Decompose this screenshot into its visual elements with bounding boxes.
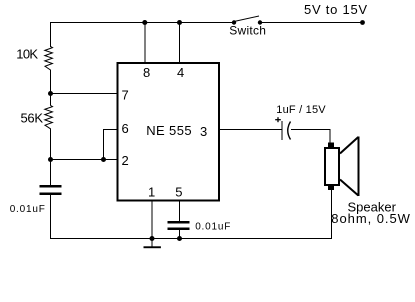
svg-text:6: 6 bbox=[122, 121, 129, 136]
svg-text:4: 4 bbox=[177, 65, 184, 80]
wire below R2 bbox=[50, 131, 52, 186]
svg-text:5V to 15V: 5V to 15V bbox=[304, 2, 368, 17]
switch S1 bbox=[232, 16, 262, 25]
wire bottom rail bbox=[50, 238, 332, 240]
wire C3 to speaker bbox=[291, 130, 330, 144]
svg-text:2: 2 bbox=[122, 153, 129, 168]
IC U1 NE 555 body bbox=[118, 63, 220, 201]
wire pin1 to ground rail bbox=[151, 200, 153, 239]
svg-text:56K: 56K bbox=[21, 111, 44, 126]
svg-text:8: 8 bbox=[143, 65, 150, 80]
svg-text:1: 1 bbox=[148, 184, 155, 199]
svg-text:0.01uF: 0.01uF bbox=[195, 221, 231, 232]
wire top rail left segment bbox=[50, 22, 234, 24]
capacitor C2 0.01uF right bbox=[168, 221, 190, 230]
svg-text:8ohm, 0.5W: 8ohm, 0.5W bbox=[331, 211, 411, 226]
node pin1 rail junction bbox=[150, 236, 155, 241]
svg-text:Switch: Switch bbox=[229, 24, 266, 38]
svg-text:3: 3 bbox=[200, 124, 207, 139]
wire pin6 stub bbox=[104, 130, 118, 161]
speaker LS1 bbox=[325, 137, 359, 197]
wire left rail top bbox=[50, 22, 52, 47]
wire speaker to rail bbox=[331, 189, 333, 239]
node junction pin6-pin2 bbox=[101, 157, 106, 162]
capacitor C1 0.01uF left bbox=[40, 185, 62, 195]
svg-text:0.01uF: 0.01uF bbox=[10, 204, 46, 215]
wire C2 to rail bbox=[179, 230, 181, 239]
wire pin7 bbox=[51, 93, 118, 95]
resistor R1 10K bbox=[45, 47, 53, 72]
node junction R2-pin2 bbox=[48, 157, 53, 162]
svg-text:5: 5 bbox=[175, 184, 182, 199]
node junction R1-R2 bbox=[48, 91, 53, 96]
wire pin3 bbox=[219, 129, 282, 131]
resistor R2 56K bbox=[45, 105, 53, 130]
capacitor C3 1uF polarized bbox=[275, 117, 290, 140]
wire C1 to bottom rail bbox=[50, 195, 52, 239]
wire top rail right segment bbox=[260, 22, 363, 24]
svg-text:10K: 10K bbox=[16, 47, 38, 62]
wire pin5 to C2 bbox=[179, 200, 181, 222]
node pin5 rail junction bbox=[177, 236, 182, 241]
node supply terminal bbox=[360, 20, 365, 25]
pin 8 bbox=[142, 20, 150, 80]
wire pin2 bbox=[51, 159, 118, 161]
pin 4 bbox=[177, 20, 184, 80]
svg-text:1uF / 15V: 1uF / 15V bbox=[276, 104, 326, 116]
svg-text:7: 7 bbox=[122, 88, 129, 103]
ground bbox=[144, 239, 161, 249]
svg-text:NE 555: NE 555 bbox=[146, 123, 192, 138]
wire between resistors bbox=[50, 72, 52, 106]
